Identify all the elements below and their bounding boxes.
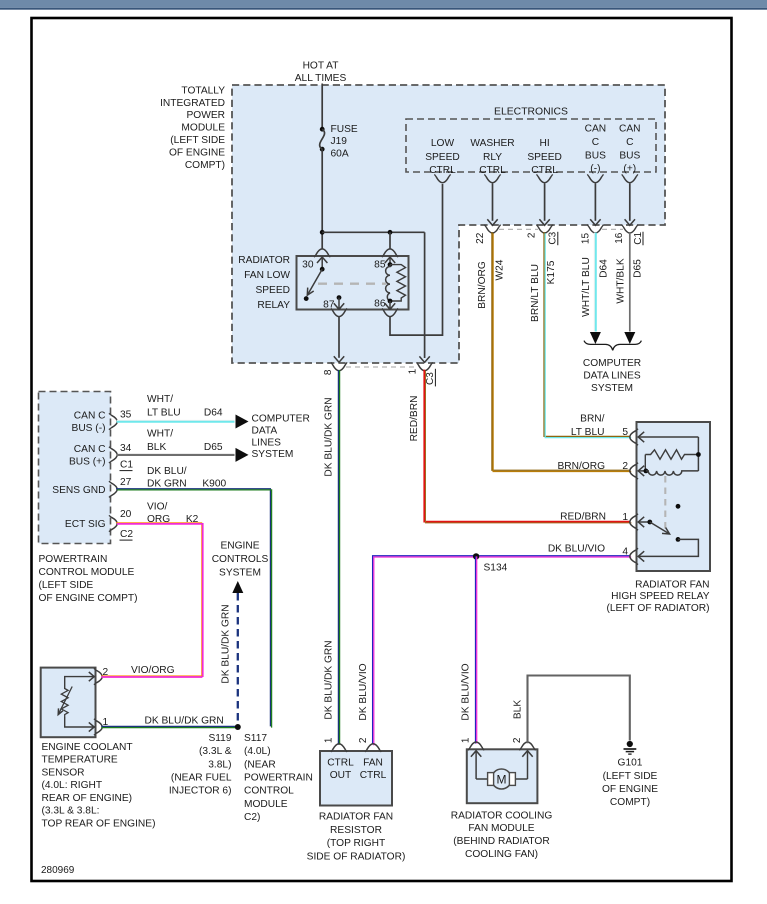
svg-text:2: 2 [358,737,369,743]
electronics bump CAN C BUS (+) [624,177,636,183]
svg-text:20: 20 [120,509,132,520]
svg-text:CAN C: CAN C [74,411,106,422]
radiator cooling fan module box [467,749,538,803]
svg-text:BRN/: BRN/ [580,413,605,424]
svg-text:5: 5 [622,427,628,438]
relay pin 85 bump [384,249,396,255]
svg-text:K2: K2 [186,514,199,525]
wire junction row to relay pin 30 [321,232,323,249]
svg-text:BUS: BUS [585,151,606,162]
wire hi speed ctrl to pin 2 [544,184,546,221]
svg-text:BRN/ORG: BRN/ORG [557,461,605,472]
svg-text:CTRL: CTRL [429,165,456,176]
svg-text:60A: 60A [331,148,349,159]
svg-text:87: 87 [323,300,335,311]
svg-text:WHT/LT BLU: WHT/LT BLU [581,257,592,317]
relay pin 87 arrow [338,298,340,309]
sensor pin 1 arrow [89,722,94,731]
hs relay coil [646,471,699,475]
hs relay node vertical [697,437,699,471]
svg-text:34: 34 [120,443,132,454]
ground G101 symbol [627,741,633,747]
relay radiator fan low speed relay box [297,256,409,310]
svg-text:(LEFT SIDE: (LEFT SIDE [603,771,658,782]
arrow to engine controls system [232,581,243,593]
motor M1 radiator cooling fan motor [492,769,512,789]
svg-text:(4.0L): (4.0L) [244,746,271,757]
svg-text:(TOP RIGHT: (TOP RIGHT [327,838,386,849]
svg-text:DK GRN: DK GRN [147,479,187,490]
splice S117 junction dot [235,724,241,730]
svg-text:BLK: BLK [147,442,166,453]
arrow WHT/LT BLU to computer data lines [590,332,601,344]
switch throw contact dot [304,296,309,301]
svg-text:K175: K175 [546,260,557,284]
svg-text:CTRL: CTRL [360,770,387,781]
electronics module dashed box [406,119,656,172]
svg-text:OF ENGINE: OF ENGINE [169,147,225,158]
connector link dashes lower [346,366,418,368]
svg-text:BUS (-): BUS (-) [72,423,106,434]
svg-text:CONTROL MODULE: CONTROL MODULE [39,567,135,578]
svg-text:SPEED: SPEED [255,285,290,296]
svg-text:CAN: CAN [585,124,607,135]
svg-text:C2: C2 [120,529,133,540]
computer data lines brace [584,341,641,351]
svg-text:2: 2 [622,461,628,472]
svg-text:LOW: LOW [431,138,455,149]
svg-text:3.8L): 3.8L) [208,759,231,770]
svg-text:VIO/: VIO/ [147,502,168,513]
arrow to computer data lines (bus -) [236,415,249,429]
svg-text:1: 1 [460,737,471,743]
relay pin 87 bump [333,311,345,317]
relay actuator dashed link [318,283,386,285]
relay pin 30 contact dot [320,267,325,272]
PCM pin 35 bump [112,415,118,427]
svg-text:WHT/BLK: WHT/BLK [615,258,626,303]
svg-text:RADIATOR: RADIATOR [238,255,290,266]
svg-text:CONTROL: CONTROL [244,786,294,797]
wire washer rly ctrl to pin 22 [492,184,494,221]
svg-text:CTRL: CTRL [327,758,354,769]
svg-text:(LEFT OF RADIATOR): (LEFT OF RADIATOR) [606,603,709,614]
svg-text:CAN: CAN [619,124,641,135]
wire BRN/LT BLU circuit K175 [544,232,630,436]
svg-text:LT BLU: LT BLU [147,408,181,419]
wire WHT/BLK D65 from PCM pin 34 [117,454,235,456]
svg-text:C1: C1 [120,460,133,471]
svg-text:J19: J19 [331,136,348,147]
svg-text:1: 1 [622,512,628,523]
svg-text:WASHER: WASHER [470,138,514,149]
svg-text:DK BLU/VIO: DK BLU/VIO [358,663,369,720]
hs relay pin 1 bump [630,516,636,528]
engine coolant temperature sensor box [41,668,96,738]
relay coil suppression resistor [390,265,406,301]
svg-text:4: 4 [622,546,628,557]
hs relay actuator dashed link [664,476,666,530]
svg-text:ORG: ORG [147,514,170,525]
svg-text:RED/BRN: RED/BRN [560,512,606,523]
hs relay resistor [645,450,698,459]
svg-text:CAN C: CAN C [74,444,106,455]
svg-text:ELECTRONICS: ELECTRONICS [494,107,568,118]
svg-text:DK BLU/DK GRN: DK BLU/DK GRN [324,397,335,476]
svg-text:15: 15 [580,233,591,245]
svg-text:1: 1 [407,368,418,374]
hs relay spare contact dot [676,504,681,509]
svg-text:TEMPERATURE: TEMPERATURE [42,755,118,766]
wire junction row down to TIPM pin 1 C3 [424,232,426,358]
svg-text:VIO/ORG: VIO/ORG [131,665,175,676]
TIPM pin 8 bump [333,365,345,371]
svg-text:TOP REAR OF ENGINE): TOP REAR OF ENGINE) [42,818,156,829]
svg-text:2: 2 [512,737,523,743]
svg-text:86: 86 [374,299,386,310]
svg-text:16: 16 [614,232,625,244]
svg-text:27: 27 [120,477,132,488]
hs relay pin 4 arrow [638,551,644,561]
fan module pin 2 bump [521,742,533,748]
svg-text:ALL TIMES: ALL TIMES [295,73,347,84]
svg-text:C2): C2) [244,812,260,823]
svg-text:(LEFT SIDE: (LEFT SIDE [170,135,225,146]
svg-text:LINES: LINES [252,437,282,448]
svg-text:HI: HI [540,138,550,149]
svg-text:CONTROLS: CONTROLS [212,554,269,565]
svg-text:WHT/: WHT/ [147,429,173,440]
svg-text:REAR OF ENGINE): REAR OF ENGINE) [42,793,133,804]
hs relay pin 5 arrow [638,432,644,442]
TIPM pin 1 bump [418,365,430,371]
svg-text:FAN: FAN [363,758,383,769]
wire can c bus + to pin 16 [629,184,631,221]
svg-text:35: 35 [120,410,132,421]
svg-text:S119: S119 [208,733,231,744]
wire RED/BRN from TIPM pin 1 to high speed relay [424,370,630,522]
wire WHT/LT BLU D64 from PCM pin 35 [117,420,235,422]
fuse J19 60A [320,127,325,132]
svg-text:COMPT): COMPT) [610,797,650,808]
wire WHT/LT BLU circuit D64 to data bus [593,233,595,332]
svg-text:1: 1 [323,737,334,743]
svg-text:MODULE: MODULE [244,799,288,810]
wire junction row horizontal [322,231,424,233]
electronics bump WASHER RLY CTRL [486,177,498,183]
sensor internal wiring [65,677,95,727]
svg-text:RESISTOR: RESISTOR [330,825,382,836]
svg-text:POWER: POWER [187,110,226,121]
TIPM pin 2 bump [538,227,550,233]
wire DK BLU/DK GRN from TIPM pin 8 to resistor [337,370,339,745]
relay pin 86 arrow [389,301,391,308]
svg-text:COMPT): COMPT) [185,160,225,171]
svg-text:C: C [626,137,633,148]
relay pin 85 arrow [385,257,395,263]
svg-text:SYSTEM: SYSTEM [219,568,261,579]
TIPM pin 22 bump [486,227,498,233]
svg-text:WHT/: WHT/ [147,394,173,405]
svg-text:FAN MODULE: FAN MODULE [468,823,534,834]
svg-text:LT BLU: LT BLU [571,427,605,438]
connector link dashes [499,228,538,230]
svg-text:HIGH SPEED RELAY: HIGH SPEED RELAY [611,591,710,602]
fan module pin 1 arrow [471,751,481,757]
TIPM pin 16 bump [624,227,636,233]
svg-text:DK BLU/VIO: DK BLU/VIO [548,544,605,555]
svg-text:(3.3L & 3.8L:: (3.3L & 3.8L: [42,806,100,817]
hs relay pin 4 internal wiring [638,539,698,556]
wire WHT/BLK circuit D65 to data bus [629,233,631,332]
svg-text:K900: K900 [202,479,226,490]
electronics bump HI SPEED CTRL [538,177,550,183]
svg-text:POWERTRAIN: POWERTRAIN [39,554,108,565]
relay pin 30 bump [316,249,328,255]
svg-text:RED/BRN: RED/BRN [409,396,420,442]
junction at fuse feed [320,230,325,235]
hs relay pin 4 bump [630,550,636,562]
svg-text:RADIATOR FAN: RADIATOR FAN [319,812,393,823]
resistor box pin 2 bump [367,744,379,750]
svg-text:ECT SIG: ECT SIG [65,519,106,530]
sensor thermistor element [61,689,68,718]
relay pin 85 dot [388,262,393,267]
resistor box pin 1 bump [333,744,345,750]
fan motor internal wiring [476,778,488,780]
arrow WHT/BLK to computer data lines [624,332,635,344]
hs relay pin 1 arrow [638,517,644,527]
svg-text:POWERTRAIN: POWERTRAIN [244,773,313,784]
svg-text:D64: D64 [204,408,223,419]
arrow to computer data lines (bus +) [236,448,249,462]
svg-text:SPEED: SPEED [425,152,460,163]
wire relay pin 86 to low speed ctrl [390,184,443,335]
svg-text:SIDE OF RADIATOR): SIDE OF RADIATOR) [307,851,406,862]
svg-text:D65: D65 [633,259,644,278]
svg-text:22: 22 [475,232,486,244]
splice S134 junction dot [473,553,479,559]
svg-text:OF ENGINE: OF ENGINE [602,784,658,795]
svg-text:ENGINE COOLANT: ENGINE COOLANT [42,742,133,753]
wire VIO/ORG circuit K2 from PCM pin 20 [116,523,202,676]
svg-text:ENGINE: ENGINE [220,541,259,552]
switch arm of low speed relay [307,269,322,295]
dashed wire DK BLU/DK GRN to engine controls [237,593,239,727]
fan module pin 1 bump [470,742,482,748]
wire BRN/ORG circuit W24 [492,232,630,470]
svg-text:BRN/ORG: BRN/ORG [477,261,488,309]
svg-text:D65: D65 [204,442,223,453]
svg-text:COMPUTER: COMPUTER [252,413,310,424]
svg-text:DK BLU/DK GRN: DK BLU/DK GRN [145,716,224,727]
svg-text:(NEAR FUEL: (NEAR FUEL [171,773,232,784]
svg-text:(LEFT SIDE: (LEFT SIDE [39,580,94,591]
svg-text:INJECTOR 6): INJECTOR 6) [169,786,232,797]
wire branch down to relay pin 85 [389,232,391,249]
svg-text:(BEHIND RADIATOR: (BEHIND RADIATOR [453,836,549,847]
relay radiator fan high speed relay box [637,422,711,571]
relay pin 87 dot [337,295,342,300]
svg-text:DK BLU/: DK BLU/ [147,466,187,477]
svg-text:BLK: BLK [513,700,524,719]
TIPM pin 15 bump [589,227,601,233]
sensor pin 1 bump [97,721,103,733]
svg-text:FUSE: FUSE [331,124,358,135]
svg-text:DK BLU/VIO: DK BLU/VIO [461,663,472,720]
svg-text:INTEGRATED: INTEGRATED [160,98,225,109]
svg-text:SYSTEM: SYSTEM [252,449,294,460]
fan module pin 2 arrow [522,751,532,757]
svg-text:FAN LOW: FAN LOW [244,270,290,281]
hs relay pin 2 arrow [638,466,644,476]
svg-text:BUS: BUS [619,151,640,162]
sensor pin 2 bump [97,670,103,682]
svg-text:TOTALLY: TOTALLY [181,85,225,96]
wire DK BLU/VIO from S134 to fan module [475,556,477,743]
hs relay pin 2 bump [630,465,636,477]
svg-text:(4.0L: RIGHT: (4.0L: RIGHT [42,780,103,791]
wire fuse to junction row [321,149,323,232]
relay pin 30 arrow [317,257,327,263]
svg-text:CTRL: CTRL [479,165,506,176]
svg-text:COMPUTER: COMPUTER [583,358,641,369]
svg-text:8: 8 [323,369,334,375]
svg-text:C: C [592,137,599,148]
svg-text:RELAY: RELAY [257,300,290,311]
wire BLK from fan module pin 2 to G101 [528,676,630,744]
svg-text:OUT: OUT [330,770,352,781]
svg-text:C1: C1 [633,231,644,244]
svg-text:(3.3L &: (3.3L & [199,746,232,757]
svg-text:SENSOR: SENSOR [42,767,85,778]
wire DK BLU/DK GRN to sensor pin 1 [101,725,238,727]
hs relay pin 1 dot [647,520,652,525]
svg-text:C3: C3 [548,231,559,244]
powertrain control module dashed box [39,392,111,544]
svg-text:SYSTEM: SYSTEM [591,383,633,394]
relay pin 86 dot [388,299,393,304]
wire DK BLU/VIO fan control run [373,556,630,744]
wire DK BLU/DK GRN circuit K900 from PCM pin 27 [116,489,270,727]
svg-text:2: 2 [527,232,538,238]
svg-text:85: 85 [374,259,386,270]
svg-text:HOT AT: HOT AT [303,60,339,71]
svg-text:BRN/LT BLU: BRN/LT BLU [530,264,541,322]
PCM pin 27 bump [112,483,118,495]
svg-text:COOLING FAN): COOLING FAN) [465,849,538,860]
svg-text:30: 30 [302,259,314,270]
totally integrated power module (TIPM) dashed outline [232,85,665,363]
svg-text:SENS GND: SENS GND [52,485,105,496]
svg-text:CTRL: CTRL [531,165,558,176]
svg-text:BUS (+): BUS (+) [69,456,106,467]
svg-text:OF ENGINE COMPT): OF ENGINE COMPT) [39,593,138,604]
svg-text:M: M [497,773,507,787]
PCM pin 20 bump [112,517,118,529]
hs relay throw contact dot [676,537,681,542]
svg-text:(-): (-) [590,164,600,175]
hs relay resistor node dot [696,452,701,457]
radiator fan resistor box [320,751,392,806]
PCM pin 34 bump [112,449,118,461]
wire from hot feed to fuse J19 [321,84,323,130]
svg-text:W24: W24 [495,259,506,280]
relay coil between pins 85 and 86 [386,265,390,301]
hs relay switch arm [650,522,670,534]
wire VIO/ORG to sensor pin 2 [101,675,202,677]
svg-text:C3: C3 [425,372,436,385]
svg-text:RADIATOR FAN: RADIATOR FAN [635,579,709,590]
svg-text:S134: S134 [484,563,508,574]
wire can c bus - to pin 15 [594,184,596,221]
svg-text:DK BLU/DK GRN: DK BLU/DK GRN [221,604,232,683]
svg-text:(NEAR: (NEAR [244,759,276,770]
svg-text:(+): (+) [623,164,636,175]
wire relay pin 87 to TIPM pin 8 [338,317,340,358]
junction above relay pin 85 [388,230,393,235]
relay pin 86 bump [384,311,396,317]
electronics bump LOW SPEED CTRL [436,177,448,183]
hs relay resistor left lead [644,455,646,472]
svg-text:DATA LINES: DATA LINES [583,371,641,382]
hs relay pin 5 bump [630,431,636,443]
svg-text:S117: S117 [244,733,267,744]
svg-text:SPEED: SPEED [527,152,562,163]
svg-text:280969: 280969 [41,865,75,876]
svg-text:MODULE: MODULE [181,123,225,134]
svg-text:DK BLU/DK GRN: DK BLU/DK GRN [324,640,335,719]
svg-text:RADIATOR COOLING: RADIATOR COOLING [451,811,553,822]
svg-text:G101: G101 [618,758,643,769]
sensor pin 2 arrow [89,672,94,681]
svg-text:D64: D64 [598,259,609,278]
svg-text:DATA: DATA [252,426,278,437]
electronics bump CAN C BUS (-) [589,177,601,183]
hs relay pin 2 dot [644,469,649,474]
svg-text:RLY: RLY [483,152,502,163]
